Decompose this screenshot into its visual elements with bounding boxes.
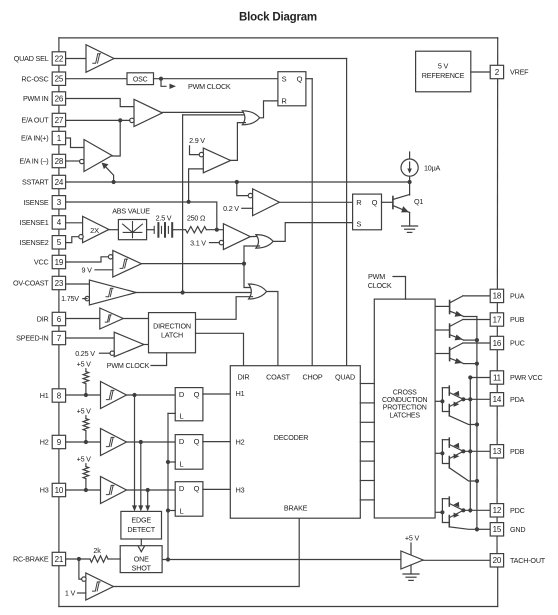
svg-text:COAST: COAST	[266, 372, 291, 381]
or-gate coast	[249, 284, 267, 299]
schmitt buffer h1	[101, 382, 127, 409]
wire pullup h2	[85, 416, 87, 419]
svg-text:3.1 V: 3.1 V	[190, 238, 206, 247]
wire PDA collector to pin	[463, 398, 490, 400]
svg-text:H3: H3	[40, 486, 49, 495]
wire gnd row to pin15	[477, 528, 490, 530]
svg-text:+5 V: +5 V	[77, 360, 92, 369]
pin 20 box	[490, 554, 503, 567]
pin 28 box	[52, 154, 65, 167]
wire decoder to latches 3	[360, 421, 374, 423]
node h3 branch	[146, 488, 150, 492]
wire or coast out to COAST bus	[267, 292, 278, 366]
comparator 0.2V	[253, 189, 280, 216]
svg-text:12: 12	[493, 506, 502, 515]
svg-text:Q: Q	[194, 437, 200, 446]
pin 21 box	[52, 552, 65, 565]
svg-text:2.5 V: 2.5 V	[156, 213, 172, 222]
wire pullup h3	[85, 464, 87, 467]
wire 1.75V ref	[83, 298, 87, 300]
svg-text:2: 2	[495, 68, 500, 77]
svg-text:0.2 V: 0.2 V	[223, 204, 239, 213]
pin 3 box	[52, 196, 65, 209]
block decoder	[230, 366, 360, 519]
schmitt buffer ov-coast	[89, 280, 136, 305]
svg-text:16: 16	[493, 339, 502, 348]
svg-text:ISENSE2: ISENSE2	[20, 238, 49, 247]
bubble 2X amp	[79, 235, 83, 239]
svg-text:CONDUCTION: CONDUCTION	[382, 397, 428, 404]
svg-text:H1: H1	[236, 389, 245, 398]
pin 5 box	[52, 236, 65, 249]
node rc-brake branch	[77, 557, 81, 561]
pin 13 box	[490, 445, 503, 458]
node e/a out junction	[118, 118, 122, 122]
wire 2X to abs value	[109, 229, 119, 231]
node sstart to comp	[235, 180, 239, 184]
wire pin21 row	[66, 558, 90, 560]
wire rc-brake down	[79, 559, 82, 579]
wire PUA collector to pin	[463, 295, 490, 297]
comparator pwm	[134, 99, 162, 126]
bubble 9V comp	[108, 255, 112, 259]
wire 2.9V comp lower input	[189, 169, 204, 202]
wire decoder to latches 4	[360, 441, 374, 443]
node PDC collector	[461, 508, 465, 512]
schmitt buffer brake 1V	[86, 573, 114, 600]
wire 9V comp out	[141, 263, 244, 265]
pin 16 box	[490, 336, 503, 349]
svg-text:13: 13	[493, 447, 502, 456]
wire e/a amp output up	[112, 120, 120, 156]
wire pwm clock to latches	[393, 277, 406, 300]
svg-text:Q1: Q1	[414, 197, 423, 206]
node sstart branch	[112, 180, 116, 184]
svg-text:E/A IN(+): E/A IN(+)	[21, 134, 49, 143]
pin 1 box	[52, 131, 65, 144]
arrow one shot input	[138, 546, 144, 552]
wire source to q1	[409, 176, 411, 195]
pin 15 box	[490, 523, 503, 536]
node sstart end	[408, 180, 412, 184]
latch D2	[175, 435, 203, 470]
schmitt buffer vcc 9V	[113, 251, 142, 278]
svg-text:H3: H3	[236, 485, 245, 494]
wire sstart to 0.2 comp	[237, 182, 248, 196]
svg-text:PUA: PUA	[510, 292, 525, 301]
node PDC emitter rail	[475, 527, 479, 531]
resistor pullup h2	[83, 419, 89, 431]
wire uvlo down to or coast	[244, 264, 253, 288]
svg-text:1.75V: 1.75V	[61, 294, 79, 303]
node PUB emitter	[475, 338, 479, 342]
wire pin25 to OSC	[66, 78, 127, 80]
svg-text:EDGE: EDGE	[131, 516, 151, 525]
wire right pin chain	[496, 38, 499, 567]
wire 1V ref	[78, 592, 86, 594]
pin 7 box	[52, 331, 65, 344]
ground q1	[402, 226, 418, 232]
pin 14 box	[490, 393, 503, 406]
wire speed comp out	[144, 344, 149, 346]
or-gate chop	[242, 111, 259, 125]
wire right bottom drop	[497, 567, 499, 607]
wire PUB base	[435, 329, 450, 331]
transistor pair PDB	[442, 438, 477, 481]
wire uvlo to or oc	[244, 246, 260, 264]
block edge detect	[121, 511, 162, 539]
svg-text:VCC: VCC	[34, 258, 49, 267]
wire PDC collector to pin	[463, 509, 490, 511]
wire h1 to edge detect	[134, 395, 136, 505]
node coast row	[181, 290, 185, 294]
wire pin27 E/A OUT row	[66, 119, 130, 121]
wire left bottom drop	[58, 566, 60, 607]
svg-text:E/A IN (–): E/A IN (–)	[19, 157, 48, 166]
resistor pullup h1	[83, 372, 89, 384]
block 5V reference	[416, 51, 471, 92]
bubble pwm comparator inv input	[130, 118, 134, 122]
svg-text:9: 9	[57, 438, 62, 447]
wire PUB emitter	[464, 339, 477, 341]
wire dir latch out2 to decoder	[196, 333, 244, 365]
pin 24 box	[52, 175, 65, 188]
wire PDB collector to pin	[463, 450, 490, 452]
wire D1 L input	[168, 412, 175, 414]
current source 10uA	[401, 159, 418, 176]
wire PDA base from latches	[435, 400, 442, 402]
svg-text:PDC: PDC	[510, 506, 525, 515]
wire PUA base	[435, 305, 450, 307]
node PDC base	[440, 510, 444, 514]
svg-text:+5 V: +5 V	[405, 534, 420, 543]
wire L bus	[167, 413, 169, 559]
wire h3 buffer out	[127, 489, 176, 491]
pin 2 box	[490, 65, 503, 78]
pin 26 box	[52, 92, 65, 105]
wire ov comp out row	[136, 292, 252, 294]
wire 0.2V comp out to SR2 R	[279, 201, 352, 203]
wire OSC to SR1 S input	[154, 78, 278, 80]
svg-text:CLOCK: CLOCK	[368, 281, 392, 290]
svg-text:PUC: PUC	[510, 339, 525, 348]
svg-text:22: 22	[55, 54, 64, 63]
wire dir latch out1	[196, 297, 253, 320]
transistor pair PDA	[442, 386, 477, 424]
svg-text:10: 10	[55, 486, 64, 495]
svg-text:ISENSE: ISENSE	[23, 198, 49, 207]
wire rail R2 pwrvcc	[469, 378, 471, 513]
svg-text:250 Ω: 250 Ω	[187, 213, 206, 222]
block cross conduction protection latches	[374, 299, 435, 518]
comparator 2.9V	[203, 148, 230, 173]
svg-text:LATCH: LATCH	[161, 331, 183, 340]
node PDA rail R2	[468, 397, 472, 401]
node PDA base	[440, 399, 444, 403]
svg-text:ONE: ONE	[134, 555, 149, 564]
wire pin19 to 9V comp	[66, 257, 109, 262]
svg-text:4: 4	[57, 218, 62, 227]
node pwr vcc rail	[468, 375, 472, 379]
wire pullup lead h1	[85, 384, 87, 395]
wire quad-sel output to QUAD bus	[114, 58, 347, 60]
wire 9V ref	[95, 269, 113, 271]
wire pin5 to 2X amp	[66, 237, 80, 243]
node h1 branch	[132, 393, 136, 397]
svg-text:23: 23	[55, 279, 64, 288]
svg-text:QUAD SEL: QUAD SEL	[14, 54, 49, 63]
schmitt buffer dir	[100, 308, 123, 329]
ground tach	[403, 574, 419, 580]
wire decoder to latches 5	[360, 460, 374, 462]
wire h1 buffer out	[127, 394, 176, 396]
wire D2 Q to decoder	[203, 441, 230, 443]
wire pin24 sstart row	[66, 181, 410, 183]
svg-text:28: 28	[55, 157, 64, 166]
svg-text:5: 5	[57, 238, 62, 247]
wire left pin chain	[58, 38, 60, 566]
wire pin h2 row	[66, 441, 101, 443]
svg-text:D: D	[179, 390, 185, 399]
wire decoder to latches 1	[360, 383, 374, 385]
wire decoder to latches 6	[360, 480, 374, 482]
svg-text:PROTECTION: PROTECTION	[383, 405, 427, 412]
wire rail R1 emitters	[476, 317, 478, 530]
node PDB rail R2	[468, 449, 472, 453]
wire D2 L input	[168, 461, 175, 463]
svg-text:PWM CLOCK: PWM CLOCK	[107, 361, 150, 370]
resistor 2k	[90, 556, 108, 562]
pin 18 box	[490, 289, 503, 302]
svg-text:S: S	[356, 220, 361, 229]
schmitt buffer h3	[101, 477, 127, 504]
svg-text:Q: Q	[372, 198, 378, 207]
node one shot out	[166, 557, 170, 561]
arrow current source	[409, 162, 411, 171]
node L2 tap	[166, 460, 170, 464]
svg-text:DETECT: DETECT	[127, 525, 155, 534]
svg-text:SSTART: SSTART	[22, 178, 49, 187]
wire chip bottom border	[59, 606, 498, 608]
svg-text:DIR: DIR	[238, 372, 250, 381]
pin 4 box	[52, 216, 65, 229]
svg-text:21: 21	[55, 555, 64, 564]
wire pullup h1	[85, 369, 87, 372]
node PDB collector	[461, 449, 465, 453]
schmitt buffer quad-sel	[86, 45, 114, 73]
battery 2.5V	[154, 223, 172, 237]
svg-text:PWM CLOCK: PWM CLOCK	[188, 82, 231, 91]
svg-text:DIR: DIR	[37, 315, 49, 324]
wire h3 to edge detect	[147, 490, 149, 505]
node PDB base	[440, 451, 444, 455]
wire PDC base from latches	[435, 511, 442, 513]
svg-text:ISENSE1: ISENSE1	[20, 218, 49, 227]
wire h2 to edge detect	[140, 442, 142, 505]
bubble e/a inv input	[80, 159, 84, 163]
arrow h1 edge detect	[132, 505, 137, 511]
node PDC rail R2	[468, 508, 472, 512]
pin 12 box	[490, 504, 503, 517]
transistor Q1	[393, 195, 410, 213]
svg-text:27: 27	[55, 116, 64, 125]
wire pin3 isense row	[66, 202, 217, 230]
svg-text:7: 7	[57, 334, 62, 343]
svg-text:S: S	[282, 74, 287, 83]
svg-text:R: R	[281, 96, 287, 105]
svg-text:D: D	[179, 484, 185, 493]
svg-text:VREF: VREF	[510, 68, 529, 77]
svg-text:PDA: PDA	[510, 395, 525, 404]
wire SR1 Q to CHOP bus	[306, 78, 312, 80]
svg-text:H2: H2	[40, 438, 49, 447]
node h2 branch	[139, 440, 143, 444]
op-amp 2X	[83, 216, 109, 242]
wire tach buffer gnd	[410, 565, 412, 574]
pin 6 box	[52, 312, 65, 325]
oscillator OSC	[127, 73, 154, 85]
wire long vertical chop-coast	[182, 115, 184, 293]
buffer tach	[401, 551, 423, 569]
svg-text:11: 11	[493, 373, 502, 382]
wire pullup lead h3	[85, 479, 87, 490]
svg-text:18: 18	[493, 292, 502, 301]
svg-text:Q: Q	[194, 484, 200, 493]
svg-text:6: 6	[57, 315, 62, 324]
svg-text:PWR VCC: PWR VCC	[510, 373, 543, 382]
wire or chop out to SR1 R	[260, 101, 278, 118]
svg-text:8: 8	[57, 391, 62, 400]
svg-text:DIRECTION: DIRECTION	[153, 321, 191, 330]
wire or oc out to SR2 S	[273, 223, 352, 242]
svg-text:10µA: 10µA	[424, 164, 441, 173]
svg-text:26: 26	[55, 94, 64, 103]
svg-text:14: 14	[493, 395, 502, 404]
svg-text:25: 25	[55, 75, 64, 84]
wire decoder to latches 7	[360, 499, 374, 501]
wire decoder to latches 2	[360, 402, 374, 404]
svg-text:24: 24	[55, 178, 64, 187]
wire pin1 to e/a amp	[66, 138, 84, 148]
wire pin4 to 2X amp	[66, 222, 83, 224]
wire dir buffer to latch	[123, 318, 148, 320]
wire pin23 to ov comp	[66, 283, 90, 285]
node PUC emitter	[475, 362, 479, 366]
svg-text:SPEED-IN: SPEED-IN	[16, 334, 48, 343]
comparator speed-in	[114, 332, 144, 357]
svg-text:17: 17	[493, 315, 502, 324]
wire pin h1 row	[66, 394, 101, 396]
or-gate overcurrent	[256, 235, 273, 249]
svg-text:OSC: OSC	[133, 77, 148, 84]
wire 2.9V ref	[190, 146, 200, 155]
flip-flop SR2	[353, 194, 382, 230]
wire pwm clock tap	[161, 79, 166, 87]
svg-text:PDB: PDB	[510, 447, 525, 456]
svg-text:E/A OUT: E/A OUT	[22, 116, 50, 125]
wire pin28 to e/a amp	[66, 160, 80, 162]
pin 27 box	[52, 113, 65, 126]
svg-text:1: 1	[57, 134, 62, 143]
svg-text:0.25 V: 0.25 V	[75, 349, 95, 358]
svg-text:Q: Q	[194, 390, 200, 399]
node pwm-clock tap	[159, 77, 163, 81]
wire current source stub	[409, 152, 411, 159]
schmitt buffer h2	[101, 429, 127, 456]
wire +5V to tach buffer	[410, 543, 412, 555]
wire pin22 to buffer	[66, 58, 86, 60]
svg-text:CROSS: CROSS	[393, 389, 417, 396]
wire PUC emitter	[464, 363, 477, 365]
svg-text:2X: 2X	[90, 226, 99, 235]
op-amp E/A	[84, 140, 112, 172]
node PDB emitter rail	[475, 479, 479, 483]
svg-text:1 V: 1 V	[65, 589, 76, 598]
node pullup h3	[84, 488, 88, 492]
node pullup h2	[84, 440, 88, 444]
svg-text:R: R	[356, 198, 362, 207]
wire chip top border	[59, 37, 498, 39]
block one shot	[120, 546, 162, 573]
wire h2 buffer out	[127, 441, 176, 443]
wire battery to resistor	[172, 229, 185, 231]
wire D1 Q to decoder	[203, 393, 230, 395]
svg-text:D: D	[179, 437, 185, 446]
wire sstart clamp	[104, 165, 114, 183]
svg-text:H2: H2	[236, 437, 245, 446]
svg-text:+5 V: +5 V	[77, 407, 92, 416]
latch D1	[175, 388, 203, 421]
wire SR2 Q to Q1 base	[382, 201, 393, 203]
transistor PUC	[450, 343, 464, 364]
wire PUB collector to pin	[463, 319, 490, 321]
svg-text:15: 15	[493, 525, 502, 534]
pin 17 box	[490, 313, 503, 326]
wire tach buffer to pin20	[423, 559, 490, 561]
pin 19 box	[52, 255, 65, 268]
bubble brake comp	[82, 577, 86, 581]
svg-text:PUB: PUB	[510, 315, 525, 324]
pin 23 box	[52, 276, 65, 289]
bubble speed comp	[110, 351, 114, 355]
bubble 2.9V comp	[199, 152, 203, 156]
arrow h2 edge detect	[138, 505, 143, 511]
svg-text:19: 19	[55, 258, 64, 267]
block direction latch	[149, 313, 196, 353]
resistor 250ohm	[186, 227, 207, 233]
wire PUC collector to pin	[463, 342, 490, 344]
wire PUC base	[435, 353, 450, 355]
node pullup h1	[84, 393, 88, 397]
wire 0.25V ref	[100, 352, 111, 354]
wire ref to pin2	[471, 71, 490, 73]
wire QUAD bus	[346, 59, 348, 366]
svg-text:L: L	[180, 411, 184, 420]
svg-text:3: 3	[57, 198, 62, 207]
wire PDB base from latches	[435, 452, 442, 454]
transistor PUB	[450, 320, 464, 341]
wire D3 L input	[168, 510, 175, 512]
wire 3.1V ref	[210, 242, 220, 244]
resistor pullup h3	[83, 467, 89, 479]
wire pwm clock to dir latch	[151, 353, 167, 366]
svg-text:QUAD: QUAD	[335, 372, 355, 381]
node PDA collector	[461, 397, 465, 401]
latch D3	[175, 482, 203, 517]
transistor pair PDC	[442, 497, 477, 529]
wire long vertical top link	[183, 114, 246, 116]
pin 25 box	[52, 72, 65, 85]
